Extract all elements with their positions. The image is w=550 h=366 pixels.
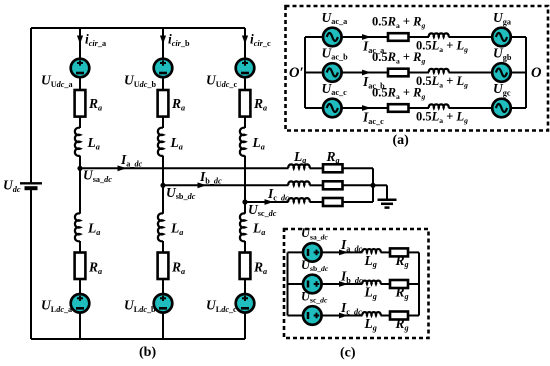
svg-text:(c): (c)	[340, 346, 356, 361]
svg-text:O: O	[531, 65, 542, 81]
svg-text:(b): (b)	[139, 345, 156, 360]
svg-text:(a): (a)	[393, 133, 410, 148]
svg-text:O′: O′	[289, 65, 304, 81]
